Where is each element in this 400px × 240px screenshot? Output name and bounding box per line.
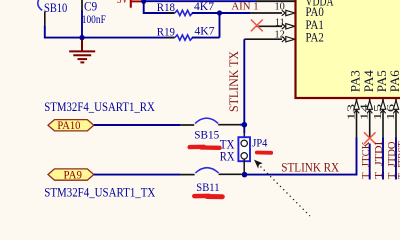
svg-text:SB15: SB15 (194, 128, 219, 142)
wire PA9 to SB11 (94, 174, 180, 176)
node: junction JP4 pin2 / STLINK_RX rail (242, 172, 248, 178)
svg-text:4K7: 4K7 (194, 0, 214, 13)
resistor R18 (157, 0, 214, 16)
svg-text:PA3: PA3 (349, 70, 363, 92)
svg-text:PA9: PA9 (64, 167, 82, 181)
rotated arrows on bottom pins (354, 100, 399, 113)
rotated pin numbers 13-16 (346, 104, 397, 121)
power port 3V (117, 0, 144, 8)
annotation marker under JP4 (257, 151, 271, 155)
wire STLINK_TX vertical (PA2 to JP4) (243, 39, 245, 134)
wire pin 16 down (395, 138, 397, 180)
svg-text:12: 12 (275, 29, 285, 40)
wire junction down to R19 (219, 13, 221, 38)
capacitor C9 (body cut off at top) (82, 0, 106, 38)
node: 3V / VDDA junction (141, 0, 146, 4)
wire PA10 to SB15 (94, 124, 180, 126)
wire VDDA rail (144, 0, 257, 2)
svg-text:STLINK RX: STLINK RX (281, 161, 339, 175)
annotation marker under SB11 (194, 194, 222, 199)
solder bridge SB11 (180, 168, 242, 194)
svg-text:11: 11 (275, 17, 285, 28)
jumper JP4 (238, 135, 267, 172)
rotated pin names PA3-PA6 (349, 69, 400, 92)
svg-text:SB10: SB10 (44, 1, 67, 15)
svg-text:JP4: JP4 (252, 135, 267, 149)
svg-text:PA6: PA6 (388, 70, 400, 92)
svg-text:SB11: SB11 (196, 180, 219, 194)
bottom pins 13-16 stubs (357, 99, 397, 138)
port PA10 (48, 118, 94, 132)
ground (69, 40, 95, 63)
svg-text:4K7: 4K7 (195, 24, 215, 38)
svg-text:3V: 3V (117, 0, 129, 6)
pin 10 (PA0) (275, 1, 295, 15)
svg-text:PA5: PA5 (375, 70, 389, 92)
solder bridge SB10 (cut off at top) (38, 0, 67, 25)
svg-text:PA0: PA0 (306, 5, 324, 19)
svg-text:R18: R18 (157, 0, 175, 14)
no-ERC cross on pin 14 (364, 132, 376, 144)
wire 3V drop to R18 (144, 1, 174, 13)
svg-text:PA2: PA2 (306, 30, 324, 44)
wire pin 15 down (382, 138, 384, 180)
svg-text:PA4: PA4 (362, 69, 376, 92)
node: junction R18/R19 (217, 10, 222, 15)
svg-text:AIN 1: AIN 1 (231, 0, 258, 12)
wire SB15 to junction (240, 124, 244, 126)
svg-text:R19: R19 (157, 24, 175, 38)
no-ERC cross on pin 11 (251, 20, 263, 32)
wire pin13 to STLINK_RX rail (245, 138, 357, 175)
svg-text:T_JTCK: T_JTCK (361, 141, 372, 179)
wire pin 14 down (369, 144, 371, 180)
node: junction C9/ground on rail (79, 35, 84, 40)
pin 11 (PA1) (256, 17, 295, 29)
svg-text:STM32F4_USART1_TX: STM32F4_USART1_TX (44, 186, 155, 200)
IC U1 body (yellow, cut off top/right) (296, 0, 400, 98)
svg-text:RX: RX (220, 149, 235, 163)
svg-text:PA10: PA10 (57, 118, 80, 132)
svg-text:STM32F4_USART1_RX: STM32F4_USART1_RX (44, 100, 155, 114)
annotation marker under SB15 (190, 147, 220, 148)
svg-text:C9: C9 (84, 0, 97, 14)
svg-text:100nF: 100nF (82, 14, 106, 26)
annotation arrow + dotted leader (254, 160, 310, 216)
solder bridge SB15 (180, 118, 240, 141)
wire R18 to pin PA0 (192, 12, 250, 14)
node: junction SB15/STLINK_TX (242, 122, 248, 128)
wire SB10 to ground rail (45, 25, 174, 37)
resistor R19 (157, 24, 215, 41)
port PA9 (48, 167, 94, 181)
svg-text:T_JTDI: T_JTDI (374, 141, 385, 179)
pin 12 (PA2) (244, 29, 295, 42)
wire R19 right (192, 37, 220, 39)
svg-text:STLINK TX: STLINK TX (227, 51, 241, 112)
